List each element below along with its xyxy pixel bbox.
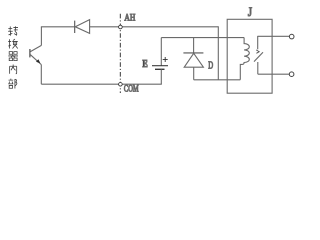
label hanzi huan (converter text 2) [8, 39, 18, 48]
battery E long plate [152, 65, 168, 67]
label hanzi qi (converter text 3) [8, 52, 18, 61]
diode D cathode bar [183, 52, 203, 54]
wire top left [41, 26, 75, 28]
svg-text:J: J [248, 4, 252, 19]
wire vertical from AH wire down [217, 26, 219, 80]
transistor Q1 collector diagonal [30, 45, 41, 51]
diode D top lead [193, 38, 195, 53]
label + polarity [163, 57, 168, 62]
boundary dash-dot line [119, 14, 121, 93]
svg-text:D: D [208, 61, 213, 72]
label hanzi nei (converter text 4) [10, 65, 17, 74]
wire lower (anode to coil bottom) [194, 79, 241, 81]
relay contact fixed bottom [257, 62, 259, 74]
diode D1 cathode bar [74, 21, 76, 33]
terminal circle bottom [289, 72, 294, 77]
node COM terminal circle [119, 83, 123, 87]
svg-text:E: E [142, 58, 147, 70]
relay J box [227, 19, 272, 93]
diode D anode stub [193, 67, 195, 80]
node AH terminal circle [119, 25, 123, 29]
wire node AH to right corner [122, 26, 218, 28]
relay coil [240, 38, 249, 80]
battery E short plate [155, 68, 165, 70]
diode D triangle [184, 53, 203, 67]
wire top terminal [258, 35, 290, 37]
label hanzi bu (converter text 5) [8, 79, 17, 89]
transistor Q1 base bar [29, 49, 31, 57]
wire COM rail left of node (emitter return) [41, 83, 118, 85]
transistor Q1 emitter diagonal [30, 55, 41, 65]
diode D1 triangle [75, 20, 89, 34]
wire emitter lead [40, 65, 42, 85]
relay contact chevron [256, 50, 259, 53]
relay contact fixed top [257, 36, 259, 49]
wire collector lead [40, 27, 42, 46]
wire diode to node AH [90, 26, 119, 28]
wire battery bottom lead [160, 69, 162, 84]
svg-text:AH: AH [124, 12, 135, 22]
label hanzi zhuan (converter text 1) [8, 26, 18, 35]
wire COM rail right of node [122, 83, 162, 85]
wire supply rail [161, 37, 244, 39]
transistor Q1 emitter arrow [36, 59, 40, 63]
wire battery top lead [160, 38, 162, 66]
terminal circle top [289, 34, 294, 39]
relay contact blade [254, 52, 263, 61]
svg-text:COM: COM [124, 83, 139, 93]
wire bottom terminal [258, 73, 289, 75]
